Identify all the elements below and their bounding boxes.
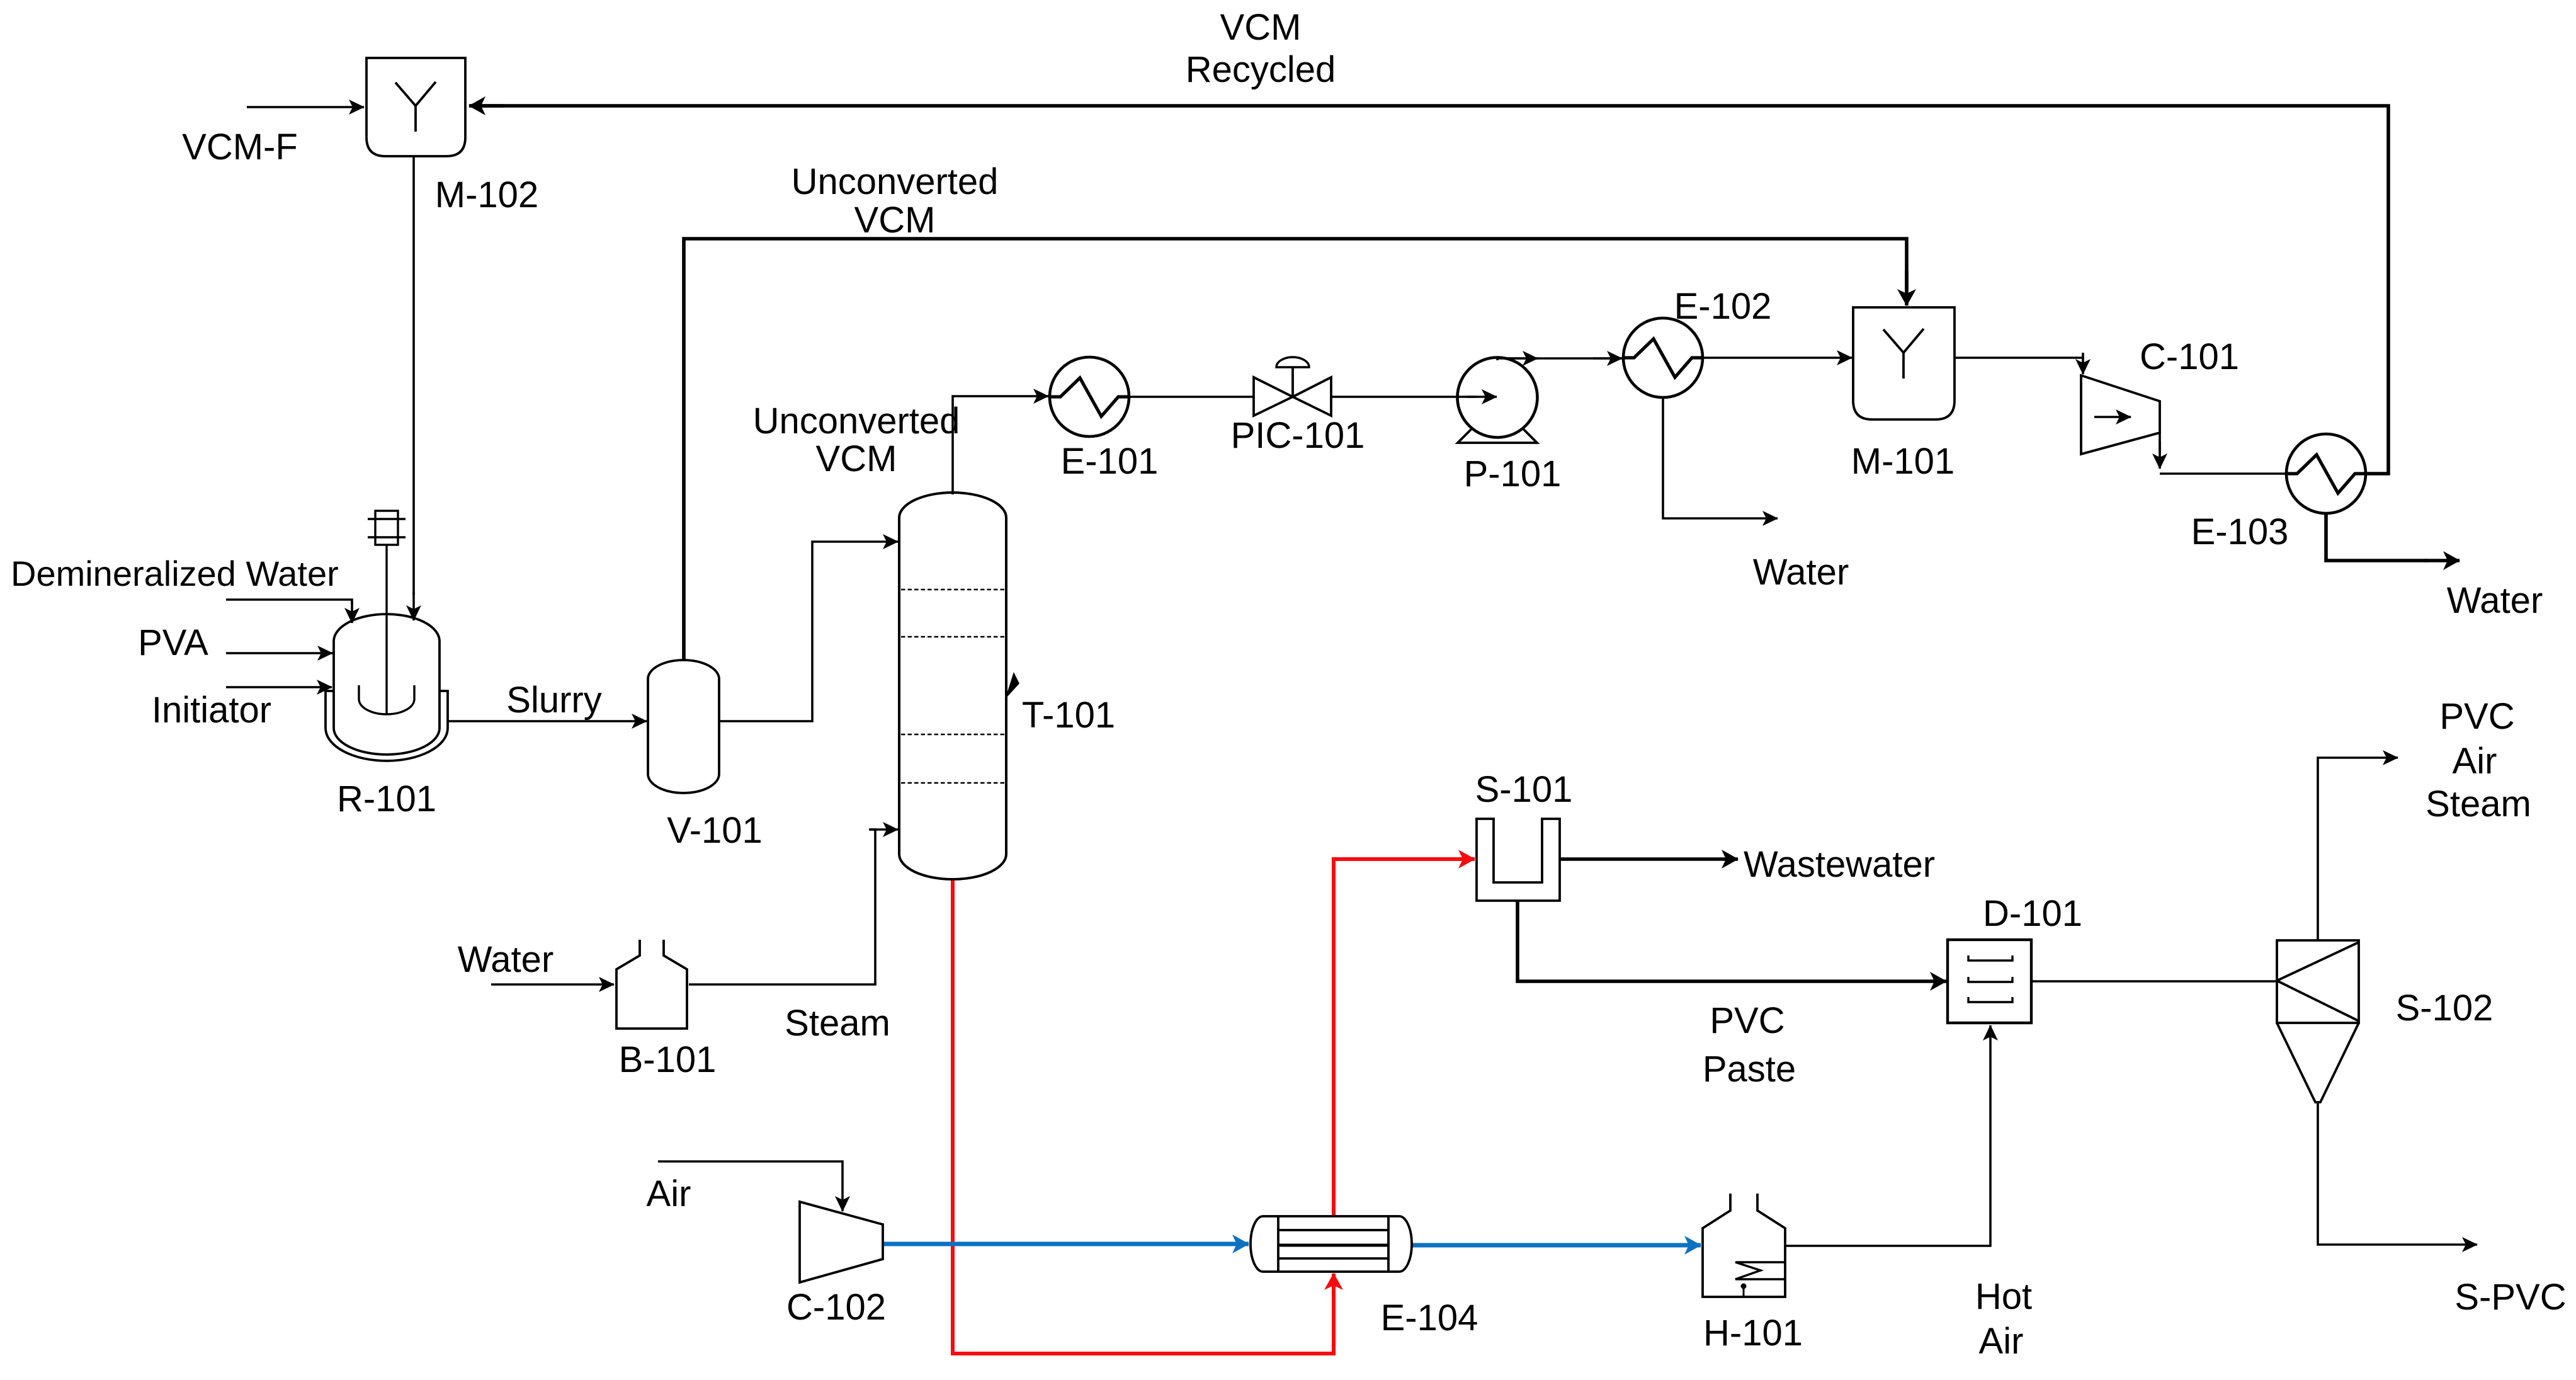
label C-102	[786, 1287, 886, 1328]
label Slurry	[506, 680, 601, 721]
label PVA	[138, 622, 208, 663]
stream: S-101 PVC paste to D-101 (thick)	[1518, 901, 1946, 981]
svg-text:Air: Air	[2453, 741, 2497, 782]
svg-text:S-101: S-101	[1475, 769, 1573, 810]
stream: Initiator into R-101	[226, 686, 332, 688]
compressor C-101	[2081, 375, 2160, 454]
svg-text:VCM: VCM	[854, 200, 936, 241]
label Air (C-102 feed)	[647, 1173, 691, 1214]
flash drum V-101	[648, 660, 719, 793]
stream: C-101 outlet to E-103	[2160, 433, 2286, 474]
svg-text:C-101: C-101	[2140, 336, 2239, 377]
stream: E-102 cooling water out	[1663, 397, 1778, 518]
label PVC Paste	[1703, 1000, 1796, 1090]
label Water (E-102 outlet)	[1753, 552, 1849, 593]
stream: E-102 to M-101	[1703, 356, 1852, 359]
stream: VCM recycle from E-103 up and left into M-102 (thick)	[469, 106, 2388, 474]
cyclone S-102	[2277, 940, 2359, 1102]
stream: V-101 bottoms to T-101 feed	[719, 542, 898, 721]
label T-101	[1022, 695, 1115, 736]
stream: VCM-F feed into M-102	[247, 106, 364, 108]
label Steam	[785, 1003, 890, 1044]
svg-text:B-101: B-101	[619, 1039, 717, 1080]
svg-text:VCM: VCM	[1220, 7, 1302, 48]
svg-text:Demineralized Water: Demineralized Water	[11, 554, 339, 593]
stream: Water into B-101	[491, 983, 614, 986]
label S-102	[2396, 988, 2494, 1029]
svg-text:PIC-101: PIC-101	[1231, 415, 1365, 456]
stream: PIC-101 to P-101	[1331, 396, 1497, 398]
svg-text:S-102: S-102	[2396, 988, 2494, 1029]
svg-text:E-103: E-103	[2191, 511, 2289, 552]
svg-text:R-101: R-101	[337, 778, 436, 819]
stream: T-101 bottoms (hot) down, right, up into E-104 (red)	[953, 879, 1334, 1354]
stream: S-102 bottoms S-PVC out	[2318, 1103, 2477, 1245]
label C-101	[2140, 336, 2239, 377]
label PVC Air Steam	[2426, 696, 2531, 824]
label Wastewater	[1744, 844, 1935, 885]
svg-text:Unconverted: Unconverted	[792, 161, 999, 202]
label Initiator	[152, 690, 271, 731]
heat exchanger E-103	[2286, 434, 2366, 513]
dryer/heater H-101	[1703, 1194, 1785, 1297]
label E-103	[2191, 511, 2289, 552]
label Demineralized Water	[11, 554, 339, 593]
svg-text:PVC: PVC	[1710, 1000, 1784, 1041]
stream: D-101 to S-102	[2031, 980, 2277, 983]
svg-text:VCM: VCM	[816, 438, 897, 479]
centrifuge S-101	[1477, 819, 1560, 901]
stream: H-101 hot air to D-101	[1785, 1025, 1990, 1246]
heat exchanger E-102	[1623, 318, 1703, 397]
svg-text:Water: Water	[1753, 552, 1849, 593]
label PIC-101	[1231, 415, 1365, 456]
label E-102	[1674, 286, 1772, 327]
svg-text:PVC: PVC	[2439, 696, 2514, 737]
label VCM Recycled	[1186, 7, 1336, 90]
control valve PIC-101	[1254, 357, 1331, 416]
stream: T-101 overhead to E-101	[953, 396, 1048, 494]
label M-101	[1851, 441, 1955, 482]
stream: E-103 water out	[2326, 513, 2460, 561]
svg-text:Steam: Steam	[785, 1003, 890, 1044]
label M-102	[435, 174, 538, 215]
label R-101	[337, 778, 436, 819]
svg-text:Hot: Hot	[1975, 1276, 2032, 1317]
svg-text:E-101: E-101	[1061, 441, 1159, 482]
svg-text:Wastewater: Wastewater	[1744, 844, 1935, 885]
stream: E-101 to PIC-101 valve	[1130, 396, 1254, 398]
svg-text:M-101: M-101	[1851, 441, 1955, 482]
svg-text:S-PVC: S-PVC	[2454, 1277, 2566, 1318]
mixer M-102	[366, 58, 465, 156]
reactor R-101	[326, 511, 448, 761]
label D-101	[1983, 893, 2082, 934]
svg-text:Recycled: Recycled	[1186, 49, 1336, 90]
svg-text:Water: Water	[2447, 580, 2543, 621]
pump P-101	[1458, 358, 1538, 443]
heat exchanger E-101	[1050, 357, 1129, 436]
svg-text:Slurry: Slurry	[506, 680, 601, 721]
rotary dryer D-101	[1948, 940, 2031, 1023]
heat exchanger E-104	[1251, 1216, 1412, 1272]
label V-101	[667, 810, 763, 851]
stream: C-102 air to E-104 (blue)	[883, 1242, 1249, 1246]
svg-text:Initiator: Initiator	[152, 690, 271, 731]
svg-text:Water: Water	[458, 939, 554, 980]
label VCM-F	[182, 127, 298, 168]
stripping column T-101	[899, 493, 1019, 879]
svg-text:Steam: Steam	[2426, 784, 2531, 824]
svg-text:H-101: H-101	[1703, 1313, 1803, 1354]
label Water (B-101 feed)	[458, 939, 554, 980]
label E-104	[1381, 1297, 1478, 1338]
stream: S-101 wastewater out (thick)	[1560, 857, 1738, 861]
stream: P-101 discharge to E-102	[1497, 358, 1622, 360]
svg-text:Air: Air	[1979, 1321, 2024, 1362]
label S-101	[1475, 769, 1573, 810]
stream: E-104 hot outlet up and right into S-101 (red)	[1334, 859, 1475, 1216]
svg-text:PVA: PVA	[138, 622, 208, 663]
svg-text:E-102: E-102	[1674, 286, 1772, 327]
stream: PVA into R-101	[226, 652, 332, 654]
compressor C-102	[800, 1202, 883, 1282]
label Water (E-103 outlet)	[2447, 580, 2543, 621]
label Hot Air	[1975, 1276, 2032, 1362]
stream: unconverted VCM from V-101 top to M-101 (thick)	[684, 239, 1907, 660]
label P-101	[1464, 453, 1562, 494]
mixer M-101	[1853, 307, 1955, 419]
svg-text:P-101: P-101	[1464, 453, 1562, 494]
svg-text:V-101: V-101	[667, 810, 763, 851]
stream: Air into C-102	[658, 1161, 843, 1211]
svg-text:Unconverted: Unconverted	[753, 401, 960, 442]
svg-text:C-102: C-102	[786, 1287, 886, 1328]
label Unconverted VCM (top)	[792, 161, 999, 241]
label B-101	[619, 1039, 717, 1080]
label Unconverted VCM (at T-101)	[753, 401, 960, 479]
label H-101	[1703, 1313, 1803, 1354]
svg-text:M-102: M-102	[435, 174, 538, 215]
stream: M-101 outlet to C-101	[1955, 353, 2083, 374]
svg-text:Air: Air	[647, 1173, 691, 1214]
stream: E-104 air to H-101 (blue)	[1412, 1243, 1701, 1248]
stream: Steam from B-101 to T-101	[689, 830, 898, 984]
svg-text:E-104: E-104	[1381, 1297, 1478, 1338]
stream: Demineralized Water into R-101	[226, 600, 352, 623]
svg-text:Paste: Paste	[1703, 1049, 1796, 1090]
stream: M-102 outlet down into R-101	[412, 156, 415, 620]
svg-text:D-101: D-101	[1983, 893, 2082, 934]
stream: S-102 overhead PVC/Air/Steam out	[2318, 758, 2398, 940]
label E-101	[1061, 441, 1159, 482]
svg-text:T-101: T-101	[1022, 695, 1115, 736]
steam drum B-101	[616, 940, 687, 1029]
svg-text:VCM-F: VCM-F	[182, 127, 298, 168]
label S-PVC	[2454, 1277, 2566, 1318]
stream: Slurry from R-101 to V-101	[448, 720, 647, 722]
